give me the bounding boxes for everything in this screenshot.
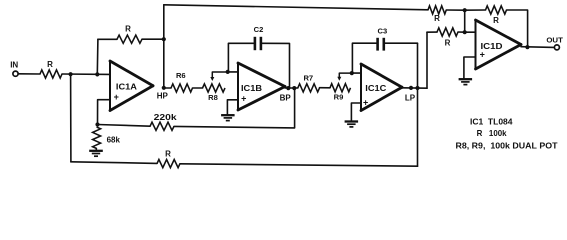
wire IC1C minus stub xyxy=(352,72,361,74)
wire corner to lower R xyxy=(427,31,437,33)
node feedback junction xyxy=(162,37,166,41)
wire LP output xyxy=(402,87,427,89)
svg-text:C3: C3 xyxy=(378,26,388,35)
svg-text:IC1A: IC1A xyxy=(116,82,137,91)
wire C2 left xyxy=(228,43,253,72)
resistor R7 xyxy=(298,84,320,92)
svg-text:R9: R9 xyxy=(334,93,344,102)
wire HP to R6 xyxy=(164,87,171,89)
svg-text:220k: 220k xyxy=(154,113,178,122)
wire to feedback resistor xyxy=(98,38,117,40)
resistor R6 xyxy=(171,84,193,92)
node BP apex xyxy=(286,86,290,90)
wire BP output xyxy=(285,87,298,89)
svg-text:R: R xyxy=(47,60,53,69)
wire top rail xyxy=(164,5,428,10)
svg-text:R: R xyxy=(445,38,451,47)
svg-text:OUT: OUT xyxy=(546,36,563,45)
svg-text:+: + xyxy=(241,94,246,104)
label R IC1D feedback xyxy=(493,16,499,25)
node LP apex xyxy=(409,86,413,90)
wire upper R to node xyxy=(446,9,464,11)
pin IC1B plus xyxy=(241,94,246,104)
wire IC1A noninverting input xyxy=(98,100,111,125)
svg-text:R8: R8 xyxy=(208,93,218,102)
node output junction xyxy=(525,45,529,49)
capacitor C2 xyxy=(255,37,261,50)
wire IC1B minus stub xyxy=(228,71,238,73)
wire C3 left xyxy=(352,43,376,73)
svg-text:IC1C: IC1C xyxy=(365,84,386,93)
resistor R (IC1A feedback) xyxy=(117,35,142,43)
wire LP to summing R xyxy=(426,32,428,88)
wiper R8 xyxy=(210,72,227,81)
wire 68k to ground xyxy=(95,149,97,151)
wire feedback R to HP rail xyxy=(142,38,164,40)
ground under 68k xyxy=(89,151,103,156)
wire IC1D noninverting input xyxy=(464,57,476,79)
op-amp IC1D xyxy=(476,20,522,69)
label R HP summing xyxy=(434,14,440,23)
wire junction vertical xyxy=(464,10,466,32)
label R input value xyxy=(47,60,53,69)
wire LP feedback vertical xyxy=(417,43,419,166)
label R7 xyxy=(303,73,313,82)
label HP xyxy=(157,92,169,101)
label IN xyxy=(10,60,18,69)
label R bottom xyxy=(165,150,171,159)
wire input node down xyxy=(70,74,72,162)
wire inverting node up xyxy=(96,39,99,74)
capacitor C3 xyxy=(378,38,384,51)
wire R to input node xyxy=(62,73,110,75)
svg-text:R7: R7 xyxy=(303,73,313,82)
resistor R (input) xyxy=(40,70,62,78)
wire 220k to BP xyxy=(174,88,295,128)
resistor R (bottom feedback) xyxy=(157,160,180,168)
label IC1C xyxy=(365,84,386,93)
note R8 R9 dual pot xyxy=(456,140,558,150)
node LP xyxy=(415,86,419,90)
pin IC1C plus xyxy=(363,97,368,107)
label 68k xyxy=(107,136,121,145)
wire bottom feedback right xyxy=(180,164,418,166)
label R8 xyxy=(208,93,218,102)
node IC1B inverting input xyxy=(226,70,230,74)
label IC1B xyxy=(241,84,262,93)
label BP xyxy=(280,94,292,103)
svg-text:+: + xyxy=(480,50,485,60)
wire R6 to R8 xyxy=(193,87,203,89)
wire to IC1D feedback R xyxy=(465,9,486,11)
wire IC1D minus stub xyxy=(465,31,476,33)
wire plus node to 220k xyxy=(98,125,151,127)
wire IC1B noninverting input xyxy=(227,100,238,115)
wire HP vertical xyxy=(163,5,165,88)
pin IC1D plus xyxy=(480,50,485,60)
svg-text:R: R xyxy=(434,14,440,23)
label C3 xyxy=(378,26,388,35)
ground IC1C xyxy=(345,122,359,127)
ground IC1D xyxy=(459,79,473,84)
node input junction xyxy=(69,72,73,76)
note IC1 TL084 xyxy=(470,117,513,127)
op-amp IC1C xyxy=(361,64,402,111)
svg-text:+: + xyxy=(114,92,119,102)
svg-text:R: R xyxy=(125,24,131,33)
wire C3 right xyxy=(385,42,417,44)
wire IC1D feedback to output xyxy=(507,10,528,47)
wire OUT xyxy=(521,46,554,49)
svg-text:R6: R6 xyxy=(176,71,186,80)
resistor R (HP summing) xyxy=(428,6,446,14)
wire IC1C noninverting input xyxy=(351,103,361,121)
svg-text:BP: BP xyxy=(280,94,292,103)
wire bottom feedback xyxy=(71,162,157,164)
label R IC1A feedback xyxy=(125,24,131,33)
pin IC1A plus xyxy=(114,92,119,102)
svg-text:R8, R9, 100k DUAL POT: R8, R9, 100k DUAL POT xyxy=(456,140,558,150)
wire R7 to R9 xyxy=(320,87,331,89)
node IC1A plus junction xyxy=(95,122,99,126)
node IC1D lower junction xyxy=(463,30,467,34)
label R LP summing xyxy=(445,38,451,47)
resistor 68k xyxy=(93,127,101,149)
node BP xyxy=(292,86,296,90)
resistor R8 (pot) xyxy=(203,84,226,92)
note R 100k xyxy=(477,128,507,138)
svg-text:LP: LP xyxy=(405,93,416,102)
resistor R (LP summing) xyxy=(437,28,458,36)
wiper R9 xyxy=(337,73,352,81)
ground IC1B xyxy=(221,115,235,120)
resistor R (IC1D feedback) xyxy=(486,6,507,14)
input terminal IN xyxy=(13,71,18,76)
svg-text:C2: C2 xyxy=(254,25,264,34)
svg-text:IC1B: IC1B xyxy=(241,84,262,93)
label R9 xyxy=(334,93,344,102)
output terminal OUT xyxy=(554,45,559,50)
node IC1D upper junction xyxy=(463,8,467,12)
op-amp IC1B xyxy=(238,63,285,110)
label C2 xyxy=(254,25,264,34)
svg-text:R: R xyxy=(165,150,171,159)
node IC1A inverting input xyxy=(95,72,99,76)
resistor R9 (pot) xyxy=(330,84,351,92)
svg-text:IC1 TL084: IC1 TL084 xyxy=(470,117,513,127)
svg-text:68k: 68k xyxy=(107,136,121,145)
node IC1C inverting input xyxy=(350,71,354,75)
wire lower R to minus node xyxy=(458,31,465,33)
label LP xyxy=(405,93,416,102)
wire IN to R xyxy=(18,73,40,75)
wire C2 right xyxy=(262,43,289,88)
svg-text:R 100k: R 100k xyxy=(477,128,507,138)
label IC1A xyxy=(116,82,137,91)
op-amp IC1A xyxy=(110,61,153,111)
label 220k xyxy=(154,113,178,122)
label OUT xyxy=(546,36,563,45)
label R6 xyxy=(176,71,186,80)
node HP xyxy=(162,86,166,90)
resistor 220k xyxy=(150,122,174,130)
svg-text:+: + xyxy=(363,97,368,107)
svg-text:IN: IN xyxy=(10,60,18,69)
svg-text:HP: HP xyxy=(157,92,169,101)
label IC1D xyxy=(481,42,503,51)
svg-text:R: R xyxy=(493,16,499,25)
